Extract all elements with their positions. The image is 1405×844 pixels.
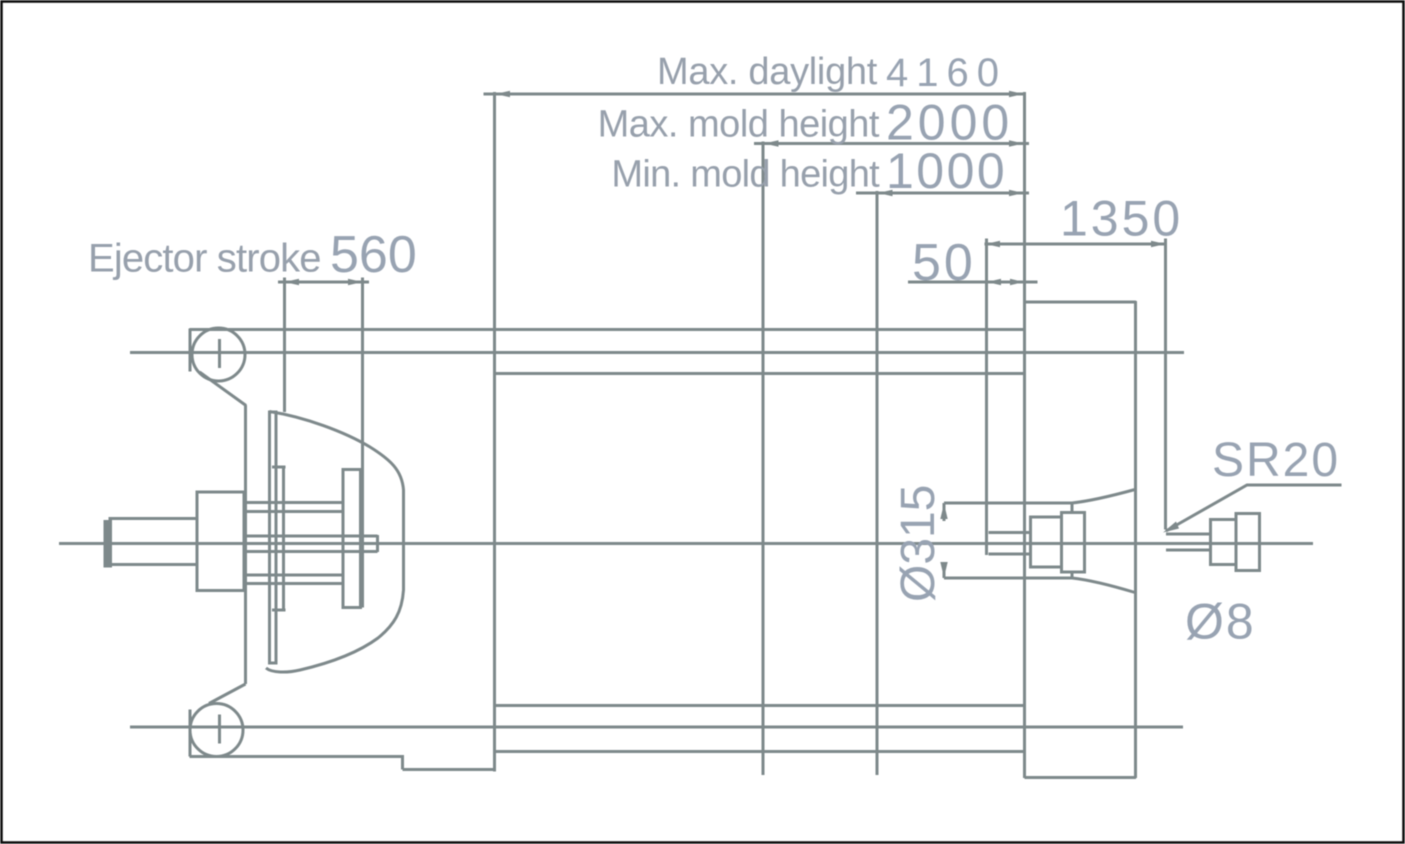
platen hole bottom edge <box>944 577 1072 580</box>
svg-text:4160: 4160 <box>886 51 1007 95</box>
wire: 1350 right extension (nozzle tip) <box>1164 239 1167 530</box>
Ø315 dimension line upper segment <box>943 503 946 521</box>
arrow: 1350 left <box>986 241 1001 247</box>
svg-text:Min. mold height: Min. mold height <box>611 154 880 196</box>
ejector plate mid (thick) <box>276 467 284 610</box>
wire: Max daylight dimension line <box>484 93 1027 96</box>
platen hole top flare curve <box>1072 490 1135 504</box>
sprue tube bottom edge <box>989 553 1031 556</box>
base step vertical <box>401 755 404 770</box>
arrow: max daylight right <box>1009 91 1024 97</box>
arrow: 1350 right <box>1151 241 1166 247</box>
ejector plate mid top cap <box>272 466 286 469</box>
base bottom edge <box>403 768 496 771</box>
platen hole bottom flare curve <box>1072 578 1135 593</box>
tie bar circle top <box>192 328 245 381</box>
arrow: Ø315 top <box>940 504 947 520</box>
arrow: 50 left <box>987 279 1001 285</box>
svg-text:SR20: SR20 <box>1212 434 1340 487</box>
ejector center rod end cap <box>376 535 379 552</box>
svg-text:Ejector stroke: Ejector stroke <box>88 237 321 281</box>
arrow: min mold height left <box>878 190 893 196</box>
wire: moving platen face extension (max daylight) <box>493 92 496 772</box>
tie bar circle bottom tick <box>218 715 221 744</box>
arrow: 560 right <box>348 279 363 285</box>
ejector rod end cap <box>105 522 111 567</box>
tie bar bottom, lower edge <box>496 750 1024 753</box>
ejector plate rear (thin) <box>270 412 277 663</box>
ejector coupling block <box>197 492 244 591</box>
ejector guide rod upper <box>246 503 344 512</box>
wire: 1350 left extension <box>985 239 988 556</box>
arrow: 50 right <box>1010 279 1024 285</box>
wire: 1350 dimension line <box>985 243 1167 246</box>
arrow: max mold height left <box>764 140 779 146</box>
wire: 560 left extension <box>283 278 286 413</box>
wire: 50 dimension line <box>908 281 1038 284</box>
rear bracket inner vertical <box>244 405 247 684</box>
ejector rod <box>110 519 197 565</box>
tie bar circle top tick <box>218 339 221 368</box>
recess vertical stub bottom <box>1071 572 1074 579</box>
centerline upper tie bar <box>130 351 1184 354</box>
stationary platen top edge <box>1025 301 1137 304</box>
wire: 560 right extension <box>361 278 364 608</box>
arrow: min mold height right <box>1009 190 1024 196</box>
rear bracket top diagonal <box>200 372 247 406</box>
main horizontal centerline <box>59 542 1313 545</box>
wire: Max mold height dimension line <box>754 142 1029 145</box>
svg-text:Ø315: Ø315 <box>892 485 945 602</box>
arrow: max mold height right <box>1009 140 1024 146</box>
tie bar circle bottom <box>190 704 243 757</box>
tie bar top edge (upper) <box>190 328 1024 331</box>
Ø315 dimension line lower segment <box>943 564 946 578</box>
rear bracket bottom edge <box>190 755 403 758</box>
svg-text:560: 560 <box>330 226 417 284</box>
stationary platen bottom edge <box>1025 776 1137 779</box>
moving platen housing curve <box>266 412 404 673</box>
arrow: SR20 leader <box>1163 522 1179 533</box>
stationary platen right edge <box>1134 301 1137 778</box>
arrow: 560 left <box>285 279 300 285</box>
tie bar bottom, upper edge <box>496 704 1024 707</box>
svg-text:50: 50 <box>912 234 976 292</box>
rear bracket left edge top <box>189 329 192 372</box>
centerline lower tie bar <box>130 726 1183 729</box>
wire: max mold height platen position <box>762 142 765 776</box>
nozzle tip top edge <box>1166 533 1211 536</box>
svg-text:1350: 1350 <box>1060 191 1183 247</box>
nozzle rear <box>1236 514 1260 571</box>
tie bar top, lower edge <box>496 372 1024 375</box>
locating ring inner <box>1031 517 1062 567</box>
svg-text:Ø8: Ø8 <box>1185 594 1256 650</box>
platen hole top edge <box>944 502 1072 505</box>
wire: Min mold height dimension line <box>856 192 1029 195</box>
wire: Ejector stroke 560 dimension line <box>278 281 369 284</box>
rear bracket bottom diagonal <box>209 684 246 704</box>
locating ring outer <box>1062 513 1085 573</box>
SR20 leader line <box>1166 485 1342 531</box>
sprue tube top edge <box>989 531 1031 534</box>
nozzle tip bottom edge <box>1166 549 1211 552</box>
rear bracket left edge bottom <box>189 710 192 757</box>
ejector plate front <box>343 470 361 608</box>
svg-text:1000: 1000 <box>886 143 1007 199</box>
wire: min mold height platen position <box>876 191 879 775</box>
svg-text:Max. daylight: Max. daylight <box>657 51 878 93</box>
nozzle body <box>1211 520 1237 565</box>
svg-text:Max. mold height: Max. mold height <box>598 104 880 146</box>
ejector guide rod lower <box>246 575 344 584</box>
ejector plate mid bottom cap <box>272 609 286 612</box>
recess vertical stub top <box>1071 503 1074 513</box>
ejector center rod <box>246 536 378 552</box>
wire: stationary platen face <box>1023 92 1026 778</box>
arrow: max daylight left <box>496 91 511 97</box>
arrow: Ø315 bottom <box>940 562 947 578</box>
